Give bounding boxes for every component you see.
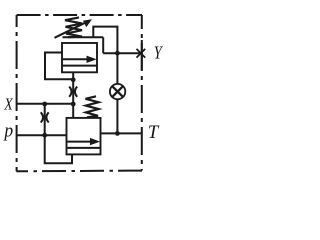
enclosure chain-line border bottom <box>16 170 142 173</box>
svg-text:X: X <box>3 95 13 114</box>
wire: spring seat down to Y line <box>102 37 104 53</box>
wire: left feedback loop of pilot valve <box>45 53 73 80</box>
main valve spring W2 <box>86 96 99 117</box>
junction dot <box>115 51 120 56</box>
wire: vertical line to gauge symbol and T <box>116 53 118 84</box>
wire: orifice branch vertical <box>44 104 46 135</box>
junction dot <box>71 77 76 82</box>
svg-text:Y: Y <box>154 44 164 63</box>
junction dot <box>115 131 120 136</box>
enclosure chain-line border left <box>16 15 18 171</box>
main valve U2 internal partition <box>67 147 101 149</box>
junction dot <box>71 102 76 107</box>
pilot valve U1 body <box>62 43 97 72</box>
port Y plug cross <box>137 49 146 58</box>
gauge connection symbol G1 (circle with cross) <box>110 84 125 99</box>
wire: bottom drain loop <box>45 135 72 163</box>
orifice R2 <box>41 112 43 122</box>
wire: T line <box>101 132 143 134</box>
wire: pilot drain loop upper rectangle <box>93 27 117 54</box>
pilot valve spring W1 <box>65 17 82 37</box>
enclosure chain-line border top <box>17 14 142 16</box>
main valve U2 flow arrow <box>68 141 93 143</box>
wire: p supply line <box>17 134 67 136</box>
pilot valve spring seat line <box>63 36 104 38</box>
main valve U2 body <box>67 118 101 154</box>
wire: pilot pressure vertical line <box>72 72 74 118</box>
junction dot <box>42 102 47 107</box>
junction dot <box>42 133 47 138</box>
pilot valve U1 flow arrow <box>63 58 89 60</box>
orifice R1 <box>69 87 71 97</box>
wire: Y line <box>103 52 142 54</box>
svg-text:T: T <box>148 122 160 143</box>
spring adjustment arrow <box>55 21 89 38</box>
wire: X pilot line <box>17 103 74 105</box>
pilot valve U1 internal partition <box>62 65 97 67</box>
svg-text:p: p <box>2 120 13 141</box>
enclosure chain-line border right <box>141 15 143 171</box>
solid border segment through port Y <box>141 40 143 70</box>
